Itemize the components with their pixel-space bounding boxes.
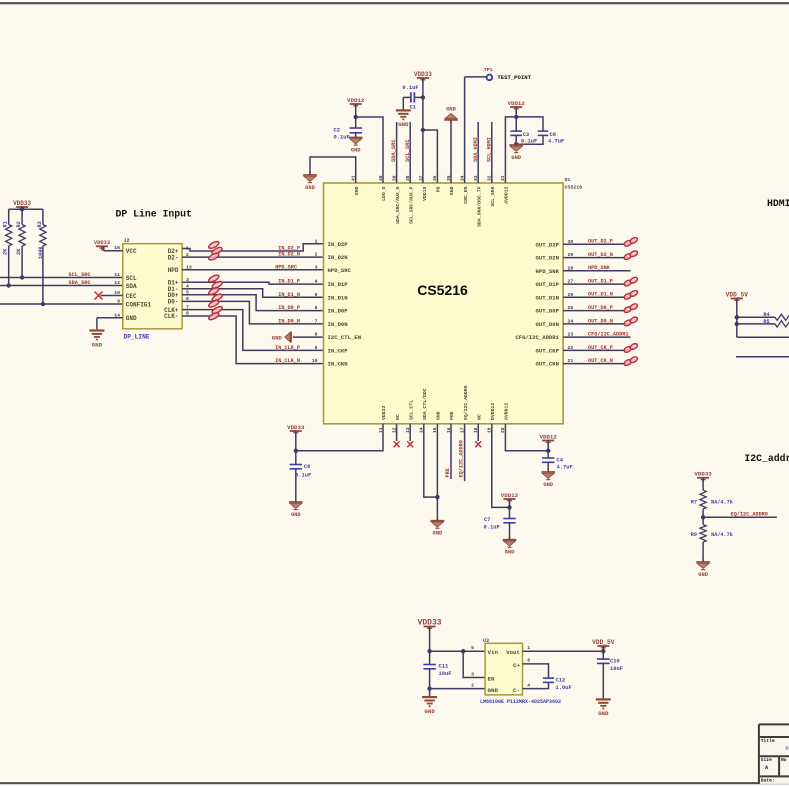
- svg-text:GND: GND: [398, 121, 409, 128]
- svg-text:OUT_D1N: OUT_D1N: [536, 294, 560, 301]
- wire IN_CLK_N (J2 CLK- to U1 pin10): [182, 316, 323, 364]
- ground arrow below C7: [503, 539, 517, 541]
- svg-text:TP1: TP1: [484, 67, 493, 73]
- wire to resistor R4: [737, 316, 775, 318]
- svg-text:R4: R4: [763, 312, 769, 318]
- capacitor C10 10uF: [597, 658, 610, 660]
- junction Vout-VDD_5V: [601, 649, 605, 653]
- svg-text:IN_D1P: IN_D1P: [328, 281, 349, 288]
- svg-text:VDD33: VDD33: [13, 200, 31, 207]
- svg-text:28: 28: [568, 265, 574, 271]
- svg-text:C3: C3: [523, 132, 529, 138]
- capacitor C1 0.1uF horizontal: [410, 92, 412, 102]
- svg-text:CS5216: CS5216: [565, 185, 583, 191]
- svg-text:AVDD12: AVDD12: [504, 403, 510, 420]
- pair marker OUT_D1_P: [623, 279, 632, 287]
- junction C3 gnd node: [514, 142, 518, 146]
- junction VDD_5V R4: [735, 315, 739, 319]
- svg-text:OUT_D0_P: OUT_D0_P: [588, 305, 613, 311]
- svg-text:Vin: Vin: [488, 649, 499, 656]
- svg-text:R3: R3: [37, 221, 43, 227]
- svg-text:9: 9: [117, 299, 120, 305]
- wire C8 to gnd node: [516, 135, 543, 144]
- svg-text:NC: NC: [476, 414, 482, 420]
- earth ground below C10: [596, 698, 611, 700]
- svg-text:PRE: PRE: [445, 468, 451, 477]
- svg-text:GND: GND: [424, 708, 435, 715]
- junction R7/R9 EQ node: [701, 515, 705, 519]
- wire U1 pin19 DVDD12 to VDD12/C7: [492, 424, 510, 508]
- svg-text:3: 3: [315, 264, 318, 270]
- capacitor C4 4.7uF: [542, 457, 554, 459]
- svg-text:C11: C11: [439, 664, 449, 670]
- resistor R4: [775, 314, 789, 320]
- svg-text:U3: U3: [483, 638, 489, 644]
- svg-text:VDD12: VDD12: [501, 492, 519, 499]
- svg-text:4: 4: [315, 279, 318, 285]
- svg-text:GND: GND: [511, 155, 521, 161]
- svg-text:GND: GND: [543, 482, 553, 488]
- wire IN_D1_N (J2 D1- to U1 pin5): [182, 289, 323, 298]
- svg-text:IN_D0N: IN_D0N: [328, 321, 348, 328]
- resistor R2 2K: [21, 209, 23, 224]
- svg-text:OUT_D2P: OUT_D2P: [536, 241, 560, 248]
- svg-text:R2: R2: [16, 221, 22, 227]
- svg-text:HPD_SNK: HPD_SNK: [588, 265, 611, 271]
- resistor R1 2K: [8, 209, 10, 224]
- svg-text:LM66100E P112MRX-4025AP3602: LM66100E P112MRX-4025AP3602: [480, 699, 561, 705]
- U1 pin17 EQ stub: [464, 424, 466, 481]
- svg-text:6: 6: [527, 658, 530, 664]
- svg-text:IN_D0P: IN_D0P: [328, 308, 349, 315]
- svg-text:30: 30: [568, 239, 574, 245]
- wire U1 pin15 GND down: [436, 424, 438, 521]
- svg-text:SDA_SRC: SDA_SRC: [68, 280, 91, 286]
- svg-text:IN_D2_P: IN_D2_P: [278, 245, 300, 251]
- svg-text:IN_D1N: IN_D1N: [328, 294, 348, 301]
- svg-text:PD: PD: [436, 186, 442, 192]
- U1 pin39 SDA_SRC stub: [396, 122, 398, 183]
- svg-text:VDD33: VDD33: [94, 240, 110, 246]
- junction VDD33-C1: [421, 95, 425, 99]
- sheet top border line: [0, 2, 789, 4]
- wire VDD33 rail to U1 pin11: [296, 424, 383, 451]
- pair marker OUT_CK_N: [623, 359, 632, 367]
- svg-text:HPD_SRC: HPD_SRC: [275, 264, 297, 270]
- wire U1 pin41 GND to left gnd arrow: [310, 157, 356, 183]
- svg-text:GND: GND: [446, 106, 456, 112]
- svg-text:VDD33: VDD33: [381, 405, 387, 420]
- svg-text:C-: C-: [513, 687, 520, 694]
- ground arrow at U1 pin8 I2C_CTL_EN: [293, 336, 324, 338]
- pair marker OUT_D0_P: [623, 306, 632, 314]
- svg-text:Nu: Nu: [781, 757, 787, 763]
- junction pin14/15 gnd: [435, 495, 439, 499]
- svg-text:C4: C4: [557, 458, 564, 464]
- junction VDD12 loop: [514, 115, 518, 119]
- svg-text:OUT_D1_P: OUT_D1_P: [588, 279, 613, 285]
- svg-text:10: 10: [312, 358, 318, 364]
- wire EN branch: [463, 651, 485, 677]
- svg-text:DP Line Input: DP Line Input: [116, 209, 192, 220]
- wire net SCL_SRC to left edge: [0, 277, 123, 279]
- svg-text:C2: C2: [334, 128, 340, 134]
- svg-text:10: 10: [114, 290, 120, 296]
- svg-text:J2: J2: [124, 238, 130, 244]
- wire VDD33 rail: [9, 208, 43, 210]
- svg-text:IN_CKN: IN_CKN: [328, 361, 348, 368]
- capacitor C8 4.7uF: [538, 130, 548, 132]
- svg-text:10uF: 10uF: [610, 666, 623, 672]
- svg-text:OUT_D0P: OUT_D0P: [536, 308, 560, 315]
- U1 pin 26 OUT_D1N wire: [563, 296, 630, 298]
- svg-text:0.1uF: 0.1uF: [295, 473, 311, 479]
- svg-text:R5: R5: [763, 319, 769, 325]
- title block frame: [759, 724, 789, 784]
- U1 pin 21 OUT_CKN wire: [563, 363, 630, 365]
- svg-text:GND: GND: [488, 687, 499, 694]
- U1 pin16 PRE stub: [450, 424, 452, 479]
- svg-text:DP_LINE: DP_LINE: [124, 334, 150, 341]
- capacitor C6 0.1uF: [290, 464, 302, 466]
- svg-text:CBC_EN: CBC_EN: [463, 186, 469, 203]
- svg-text:2: 2: [315, 252, 318, 258]
- pair marker OUT_D2_P: [623, 239, 632, 247]
- junction pin19-VDD12: [507, 505, 511, 509]
- svg-text:R7: R7: [691, 500, 697, 506]
- svg-text:GND: GND: [126, 315, 137, 322]
- svg-text:2K: 2K: [16, 248, 22, 255]
- svg-text:DVDD12: DVDD12: [490, 403, 496, 420]
- resistor R7 NA/4.7k: [700, 490, 706, 509]
- svg-text:D0-: D0-: [168, 299, 179, 306]
- svg-text:25: 25: [568, 305, 574, 311]
- svg-text:LDO_O: LDO_O: [381, 186, 387, 201]
- svg-text:GND: GND: [698, 572, 708, 578]
- svg-text:IN_D1_N: IN_D1_N: [278, 292, 300, 298]
- junction VDD12-C2: [354, 115, 358, 119]
- U1 pin 30 OUT_D2P wire: [563, 243, 630, 245]
- svg-text:CFG/I2C_ADDR1: CFG/I2C_ADDR1: [515, 334, 559, 341]
- wire C1 to earth ground: [402, 97, 404, 110]
- svg-text:IN_D2N: IN_D2N: [328, 254, 348, 261]
- svg-text:37: 37: [419, 175, 425, 181]
- ground arrow below C2: [349, 137, 363, 139]
- svg-text:OUT_CKP: OUT_CKP: [536, 348, 560, 355]
- junction VDD33-C11: [427, 649, 431, 653]
- no-connect X at U1 pin18: [477, 424, 479, 441]
- resistor R9 NA/4.7k: [700, 525, 706, 543]
- junction rail-VDD33: [20, 207, 24, 211]
- junction R3-CONFIG1: [41, 302, 45, 306]
- U1 pin 23 CFG/I2C_ADDR1 wire: [563, 336, 630, 338]
- svg-text:GND: GND: [92, 341, 103, 348]
- earth ground below C11: [422, 696, 437, 698]
- junction R1-SDA_SRC: [7, 283, 11, 287]
- svg-text:C12: C12: [556, 678, 566, 684]
- svg-text:5: 5: [315, 292, 318, 298]
- svg-text:OUT_CK_P: OUT_CK_P: [588, 345, 613, 351]
- svg-text:IN_D2P: IN_D2P: [328, 241, 349, 248]
- svg-text:SCL_HDMI: SCL_HDMI: [487, 137, 493, 162]
- svg-text:VDD18: VDD18: [422, 186, 428, 201]
- svg-text:5: 5: [471, 645, 474, 651]
- svg-text:GND: GND: [449, 186, 455, 195]
- wire IN_D0_N (J2 D0- to U1 pin7): [182, 301, 323, 324]
- earth ground at J2 GND: [89, 329, 104, 331]
- svg-text:VDD12: VDD12: [347, 97, 365, 104]
- svg-text:2K: 2K: [3, 248, 9, 255]
- svg-text:C10: C10: [610, 659, 620, 665]
- svg-text:15: 15: [114, 245, 120, 251]
- svg-text:10uF: 10uF: [439, 671, 452, 677]
- test point TP1: [464, 77, 466, 183]
- wire VDD33 down to U1: [422, 78, 424, 183]
- ground arrow below C6: [289, 501, 303, 503]
- svg-text:EQ/I2C_ADDR0: EQ/I2C_ADDR0: [459, 440, 465, 477]
- capacitor C12 1.0uF: [543, 677, 554, 679]
- U1 pin 27 OUT_D1P wire: [563, 283, 630, 285]
- svg-text:IN_CLK_P: IN_CLK_P: [275, 345, 300, 351]
- ground arrow below C4: [541, 471, 555, 473]
- wire VDD33 to pin36: [423, 130, 438, 183]
- ground arrow top-left of U1: [303, 174, 317, 176]
- J2 pin 14 GND wire: [97, 317, 123, 319]
- junction VDD33 split: [421, 128, 425, 132]
- earth ground below C1: [396, 109, 411, 111]
- capacitor C3 0.1uF: [510, 130, 522, 132]
- junction R2-SCL_SRC: [20, 275, 24, 279]
- svg-text:NA/4.7k: NA/4.7k: [711, 500, 733, 506]
- svg-text:VDD_5V: VDD_5V: [592, 639, 615, 646]
- svg-text:GND: GND: [272, 334, 283, 341]
- svg-text:SDA_CTL/DDC: SDA_CTL/DDC: [422, 388, 428, 420]
- junction C11 gnd: [427, 686, 431, 690]
- U3 pin 4 C- wire: [523, 682, 549, 688]
- svg-text:CFG/I2C_ADDR1: CFG/I2C_ADDR1: [588, 332, 628, 338]
- svg-text:CONFIG1: CONFIG1: [126, 301, 152, 308]
- svg-text:EQ/I2C_ADDR0: EQ/I2C_ADDR0: [463, 385, 469, 420]
- svg-text:U1: U1: [565, 177, 571, 183]
- svg-text:27: 27: [568, 279, 574, 285]
- capacitor C11 10uF: [423, 664, 435, 666]
- svg-text:OUT_D2_P: OUT_D2_P: [588, 239, 613, 245]
- U1 pin 22 OUT_CKP wire: [563, 349, 630, 351]
- wire Vin: [430, 650, 486, 652]
- svg-text:3: 3: [471, 672, 474, 678]
- U3 pin 1 Vout wire: [523, 650, 604, 652]
- svg-text:12: 12: [114, 280, 120, 286]
- svg-text:CS: CS: [786, 746, 789, 752]
- svg-text:D2-: D2-: [168, 254, 179, 261]
- svg-text:14: 14: [114, 312, 120, 318]
- resistor R3 100K: [42, 209, 44, 224]
- wire to resistor R5: [737, 323, 775, 325]
- svg-text:GND: GND: [505, 550, 515, 556]
- connector J2 DP_LINE body: [123, 244, 182, 329]
- wire IN_D0_P (J2 D0+ to U1 pin6): [182, 295, 323, 311]
- svg-text:Title: Title: [761, 738, 775, 744]
- U1 pin31 SCL_SNK stub: [491, 122, 493, 183]
- svg-text:VCC: VCC: [126, 248, 137, 255]
- wire HPD line to right edge: [736, 356, 789, 358]
- svg-text:IN_CLK_N: IN_CLK_N: [275, 358, 300, 364]
- svg-text:I2C_address: I2C_address: [744, 453, 789, 464]
- svg-text:C6: C6: [304, 464, 310, 470]
- svg-text:VDD_5V: VDD_5V: [726, 291, 749, 298]
- svg-text:HPD_SNK: HPD_SNK: [536, 268, 560, 275]
- svg-text:SCL_CTL: SCL_CTL: [408, 400, 414, 420]
- U1 pin 25 OUT_D0P wire: [563, 310, 630, 312]
- svg-text:C7: C7: [484, 517, 490, 523]
- svg-text:EQ/I2C_ADDR0: EQ/I2C_ADDR0: [731, 512, 768, 518]
- svg-text:7: 7: [315, 318, 318, 324]
- junction pin20-VDD12: [546, 449, 550, 453]
- svg-text:4.7uF: 4.7uF: [548, 138, 564, 144]
- svg-text:NA/4.7k: NA/4.7k: [711, 532, 733, 538]
- svg-text:Vout: Vout: [506, 649, 520, 656]
- svg-text:AVDD12: AVDD12: [504, 186, 510, 203]
- svg-text:SDA_SNK/DSC_TP: SDA_SNK/DSC_TP: [476, 186, 482, 226]
- svg-text:6: 6: [315, 305, 318, 311]
- pair marker OUT_CK_P: [623, 345, 632, 353]
- svg-text:EN: EN: [488, 675, 495, 682]
- svg-text:SDA_HDMI: SDA_HDMI: [473, 137, 479, 162]
- svg-text:SCL: SCL: [126, 275, 137, 282]
- U3 pin 6 C+ wire: [523, 664, 549, 678]
- wire IN_CLK_P (J2 CLK+ to U1 pin9): [182, 310, 323, 351]
- wire U1 pin20 AVDD12 to VDD12/C4: [505, 424, 548, 451]
- pair marker OUT_D0_N: [623, 319, 632, 327]
- svg-text:VDD12: VDD12: [539, 433, 557, 440]
- svg-text:1: 1: [315, 238, 318, 244]
- svg-text:SDA_SRC: SDA_SRC: [391, 139, 397, 162]
- junction VDD33-C6 rail: [294, 449, 298, 453]
- svg-text:HPD: HPD: [168, 267, 179, 274]
- svg-text:VDD33: VDD33: [287, 424, 305, 431]
- svg-text:Date:: Date:: [761, 777, 775, 783]
- svg-text:IN_D1_P: IN_D1_P: [278, 279, 300, 285]
- svg-text:OUT_D1_N: OUT_D1_N: [588, 292, 613, 298]
- wire VDD_5V corner to right edge: [737, 336, 789, 338]
- svg-text:VDD33: VDD33: [414, 71, 432, 78]
- U1 pin38 SCL_SRC stub: [409, 122, 411, 183]
- op-amp U1 CS5216 body: [324, 183, 564, 424]
- svg-text:0.1uF: 0.1uF: [521, 138, 537, 144]
- regulator U3 body: [485, 643, 522, 695]
- J2 pin 10 CEC stub with no-connect X: [101, 295, 123, 297]
- svg-text:IN_D0_P: IN_D0_P: [278, 305, 300, 311]
- svg-text:21: 21: [568, 358, 574, 364]
- svg-text:1: 1: [527, 645, 530, 651]
- svg-text:IN_D0_N: IN_D0_N: [278, 318, 300, 324]
- svg-text:GND: GND: [354, 186, 360, 195]
- ground arrow above U1 pin34: [450, 120, 452, 183]
- wire VCC pin 15: [104, 250, 123, 252]
- no-connect X at U1 pin12: [396, 424, 398, 441]
- svg-text:29: 29: [568, 252, 574, 258]
- svg-text:SDA: SDA: [126, 283, 137, 290]
- svg-text:22: 22: [568, 345, 574, 351]
- svg-text:VDD33: VDD33: [694, 471, 712, 478]
- svg-text:SCL_SRC/AUX_P: SCL_SRC/AUX_P: [408, 186, 414, 224]
- svg-text:CEC: CEC: [126, 293, 137, 300]
- pair marker OUT_D2_N: [623, 253, 632, 261]
- wire IN_D2_N (J2 D2- to U1 pin2): [182, 256, 323, 258]
- ground arrow below C3/C8: [509, 144, 523, 146]
- U1 pin 29 OUT_D2N wire: [563, 257, 630, 259]
- svg-text:VDD12: VDD12: [507, 100, 525, 107]
- svg-text:OUT_CKN: OUT_CKN: [536, 361, 560, 368]
- svg-text:TEST_POINT: TEST_POINT: [497, 74, 531, 81]
- svg-text:11: 11: [114, 272, 120, 278]
- svg-text:OUT_CK_N: OUT_CK_N: [588, 358, 613, 364]
- svg-text:CLK-: CLK-: [164, 313, 178, 320]
- svg-text:SCL_SNK: SCL_SNK: [490, 186, 496, 206]
- svg-text:0.1uF: 0.1uF: [402, 85, 418, 91]
- svg-text:R1: R1: [3, 221, 9, 227]
- svg-text:CS5216: CS5216: [417, 282, 468, 298]
- svg-text:IN_D2_N: IN_D2_N: [278, 252, 300, 258]
- svg-text:GND: GND: [305, 185, 315, 191]
- svg-text:SDA_SRC/AUX_N: SDA_SRC/AUX_N: [395, 186, 401, 224]
- svg-text:IN_CKP: IN_CKP: [328, 348, 349, 355]
- svg-text:C+: C+: [513, 662, 520, 669]
- wire VDD12 to C8: [516, 117, 543, 131]
- svg-text:GND: GND: [291, 512, 301, 518]
- wire net SDA_SRC to left edge: [0, 285, 123, 287]
- svg-text:0.1uF: 0.1uF: [334, 135, 350, 141]
- ground arrow below R9: [696, 561, 710, 563]
- svg-text:C8: C8: [550, 132, 556, 138]
- svg-text:1.0uF: 1.0uF: [556, 685, 572, 691]
- sheet bottom border line: [0, 782, 789, 784]
- svg-text:HPD_SRC: HPD_SRC: [328, 267, 352, 274]
- no-connect X at U1 pin13: [409, 424, 411, 441]
- wire U1 pin14 SDA_CTL to gnd: [424, 424, 438, 497]
- svg-text:HDMI Line Output: HDMI Line Output: [767, 198, 789, 209]
- svg-text:GND: GND: [433, 531, 443, 537]
- svg-text:OUT_D2N: OUT_D2N: [536, 255, 560, 262]
- svg-text:SCL_SRC: SCL_SRC: [405, 139, 411, 162]
- svg-text:OUT_D0N: OUT_D0N: [536, 321, 560, 328]
- svg-text:SCL_SRC: SCL_SRC: [68, 272, 91, 278]
- svg-text:GND: GND: [598, 710, 609, 717]
- twisted-pair marker D2 pair: [208, 240, 220, 249]
- wire IN_D1_P (J2 D1+ to U1 pin4): [182, 282, 323, 284]
- wire EQ/I2C_ADDR0: [703, 516, 777, 518]
- ground arrow below pin15: [431, 520, 445, 522]
- svg-text:OUT_D0_N: OUT_D0_N: [588, 318, 613, 324]
- svg-text:GND: GND: [351, 147, 361, 153]
- wire LDO_O to VDD12: [356, 117, 383, 183]
- svg-text:I2C_CTL_EN: I2C_CTL_EN: [328, 334, 362, 341]
- capacitor C7 0.1uF: [503, 518, 515, 520]
- junction VDD_5V R5: [735, 322, 739, 326]
- wire U3 GND pin to C11 node: [430, 688, 486, 690]
- svg-text:4: 4: [527, 682, 530, 688]
- svg-text:100K: 100K: [38, 246, 44, 259]
- wire CONFIG1 to left edge: [0, 303, 123, 305]
- svg-text:OUT_D2_N: OUT_D2_N: [588, 252, 613, 258]
- wire VDD12 to U1 pin30/AVDD12: [505, 117, 516, 183]
- svg-text:8: 8: [315, 332, 318, 338]
- svg-text:23: 23: [568, 332, 574, 338]
- svg-text:4.7uF: 4.7uF: [557, 465, 573, 471]
- svg-text:0.1uF: 0.1uF: [484, 525, 500, 531]
- svg-text:24: 24: [568, 318, 574, 324]
- svg-text:OUT_D1P: OUT_D1P: [536, 281, 560, 288]
